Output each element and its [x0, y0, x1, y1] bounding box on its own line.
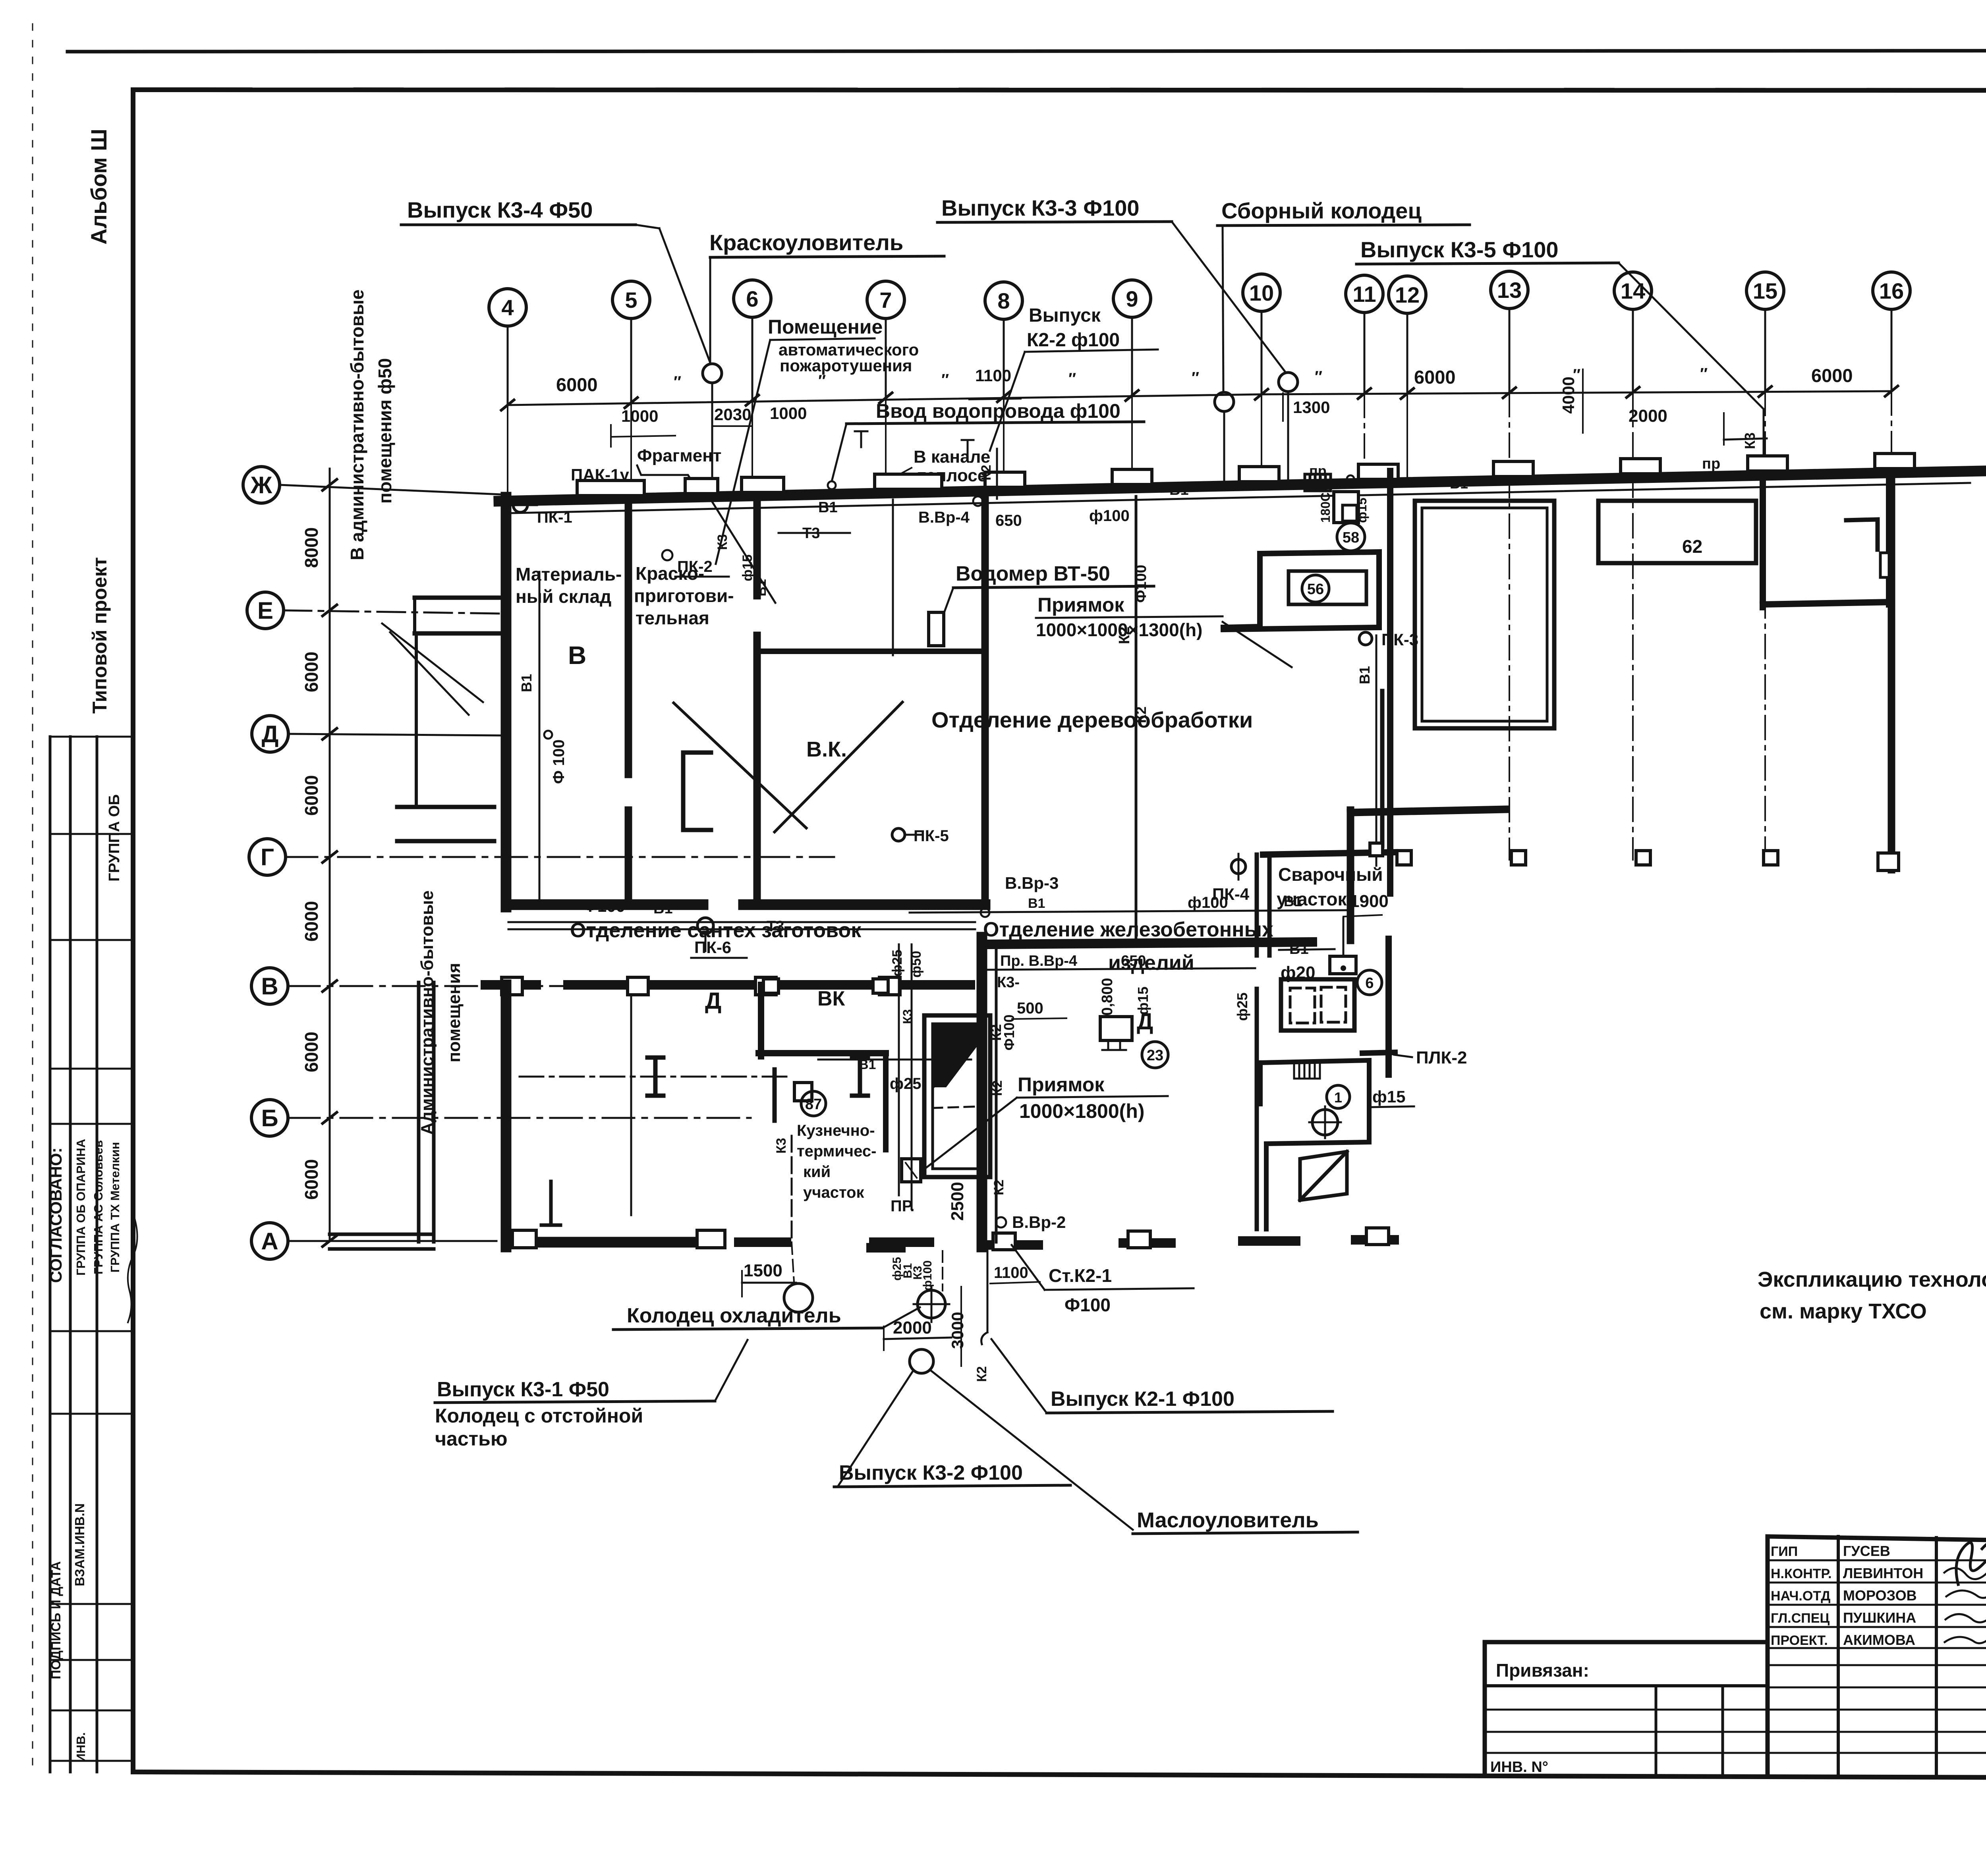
svg-text:62: 62 — [1682, 536, 1702, 557]
svg-text:К2: К2 — [1133, 706, 1149, 723]
svg-text:В1: В1 — [859, 1057, 876, 1072]
grid column 8 circle — [985, 282, 1022, 319]
svg-text:Д: Д — [705, 988, 721, 1014]
svg-text:ПК-4: ПК-4 — [1212, 885, 1250, 903]
svg-text:1000: 1000 — [770, 404, 807, 423]
svg-text:ф25: ф25 — [890, 1075, 922, 1092]
svg-text:тельная: тельная — [636, 608, 709, 628]
circle 58 — [1337, 523, 1365, 551]
axis В circle — [251, 968, 288, 1004]
svg-text:АКИМОВА: АКИМОВА — [1843, 1632, 1915, 1648]
grid column 14 circle — [1614, 272, 1652, 309]
border: frame left — [131, 90, 135, 1772]
svg-text:Сварочный: Сварочный — [1278, 864, 1383, 885]
svg-text:Выпуск К3-3 Ф100: Выпуск К3-3 Ф100 — [941, 195, 1139, 220]
svg-text:ПК-2: ПК-2 — [677, 558, 713, 575]
svg-text:ЛЕВИНТОН: ЛЕВИНТОН — [1843, 1565, 1923, 1581]
svg-text:Колодец охладитель: Колодец охладитель — [627, 1304, 841, 1327]
margin signatures — [128, 1217, 137, 1322]
svg-text:термичес-: термичес- — [797, 1143, 876, 1160]
svg-text:К3: К3 — [715, 534, 730, 550]
svg-text:Отделение сантех заготовок: Отделение сантех заготовок — [570, 919, 862, 942]
axis А leader — [288, 1240, 496, 1242]
svg-text:К3: К3 — [1742, 432, 1758, 449]
svg-text:1100: 1100 — [994, 1264, 1028, 1282]
svg-text:″: ″ — [1700, 365, 1708, 382]
svg-text:Ф100: Ф100 — [1064, 1295, 1111, 1315]
svg-text:пр: пр — [1309, 463, 1327, 479]
wall: lower-left block top — [485, 980, 536, 990]
svg-text:Административно-бытовые: Административно-бытовые — [417, 890, 437, 1135]
grid column 11 circle — [1346, 275, 1383, 313]
svg-text:Ж: Ж — [250, 472, 272, 498]
svg-text:Ст.К2-1: Ст.К2-1 — [1049, 1265, 1112, 1286]
pipe В1 сварочный — [1343, 918, 1345, 958]
wall: upper-left block bottom — [506, 899, 703, 910]
border: frame bottom — [133, 1772, 1986, 1783]
svg-text:ный склад: ный склад — [516, 586, 611, 607]
svg-text:В1: В1 — [754, 579, 769, 596]
washroom walls — [1260, 1060, 1369, 1229]
svg-text:6000: 6000 — [1811, 365, 1853, 386]
svg-text:ГРУППА ОБ ОПАРИНА: ГРУППА ОБ ОПАРИНА — [74, 1139, 88, 1276]
axis Д circle — [252, 716, 288, 752]
wall: сварочный top — [1263, 852, 1395, 855]
svg-text:9: 9 — [1126, 286, 1138, 311]
axis Г circle — [249, 839, 286, 875]
svg-text:ГРУППА ТХ Метелкин: ГРУППА ТХ Метелкин — [108, 1142, 122, 1273]
pilasters on top wall — [577, 481, 644, 496]
svg-text:1000×1800(h): 1000×1800(h) — [1019, 1100, 1145, 1122]
grid line 4 — [507, 326, 509, 405]
svg-text:″: ″ — [674, 373, 681, 391]
svg-text:СОГЛАСОВАНО:: СОГЛАСОВАНО: — [46, 1148, 65, 1283]
axis Б circle — [251, 1100, 288, 1136]
svg-text:Типовой проект: Типовой проект — [89, 557, 111, 714]
svg-text:6000: 6000 — [301, 1159, 322, 1200]
free-standing column squares — [1397, 851, 1411, 865]
svg-text:Альбом Ш: Альбом Ш — [86, 129, 111, 245]
svg-text:Выпуск: Выпуск — [1029, 305, 1101, 326]
svg-text:Выпуск К3-4 Ф50: Выпуск К3-4 Ф50 — [407, 197, 593, 222]
top dimension line — [508, 391, 1891, 405]
wall: partition Д/ВК lower — [758, 985, 764, 1056]
svg-text:Ф100: Ф100 — [1001, 1015, 1017, 1051]
wall: upper-left block left (axis 4) — [501, 497, 512, 907]
axis Г leader — [286, 856, 834, 858]
svg-text:участок: участок — [803, 1184, 864, 1201]
pilasters middle bottom — [993, 1233, 1015, 1250]
wall: деревообработки bottom — [987, 942, 1312, 944]
svg-text:ГУСЕВ: ГУСЕВ — [1843, 1543, 1890, 1559]
svg-text:14: 14 — [1621, 278, 1645, 303]
svg-text:Д: Д — [262, 721, 279, 747]
svg-text:ВЗАМ.ИНВ.N: ВЗАМ.ИНВ.N — [72, 1504, 87, 1586]
svg-text:Экспликацию технологического: Экспликацию технологического оборудовани… — [1758, 1268, 1986, 1291]
svg-text:″: ″ — [1192, 369, 1199, 387]
В.Вр-3 pipe row — [910, 910, 1347, 913]
svg-text:В1: В1 — [518, 674, 535, 692]
svg-text:кий: кий — [803, 1163, 831, 1181]
svg-text:″: ″ — [1315, 368, 1322, 386]
svg-text:участок: участок — [1277, 889, 1347, 909]
grid line 10 — [1261, 311, 1263, 394]
wall: room 56 — [1223, 552, 1379, 627]
svg-text:см. марку ТХСО: см. марку ТХСО — [1760, 1299, 1927, 1323]
grid line 6 — [752, 317, 753, 400]
heater comb symbol — [1305, 474, 1331, 491]
svg-text:Г: Г — [261, 844, 274, 870]
well circle сборный — [1215, 392, 1234, 411]
svg-text:К2-2 ф100: К2-2 ф100 — [1027, 330, 1120, 351]
svg-text:1300: 1300 — [1293, 398, 1330, 417]
svg-text:В.К.: В.К. — [806, 737, 847, 761]
stairs hatch — [1294, 1063, 1320, 1079]
svg-text:ПК-5: ПК-5 — [914, 827, 949, 845]
equipment box сварочный — [1330, 956, 1356, 974]
svg-text:частью: частью — [435, 1428, 508, 1450]
svg-text:Привязан:: Привязан: — [1496, 1660, 1589, 1681]
circle 23 — [1142, 1042, 1168, 1068]
svg-text:6000: 6000 — [301, 775, 322, 816]
svg-text:10: 10 — [1249, 280, 1274, 305]
svg-text:Колодец с отстойной: Колодец с отстойной — [435, 1405, 643, 1427]
пм box — [902, 1159, 921, 1182]
axis dash line in room Д — [520, 1076, 790, 1078]
top-right room walls — [1760, 477, 1766, 607]
svg-text:Сборный колодец: Сборный колодец — [1221, 198, 1422, 223]
wall: partition склад/краско — [625, 500, 632, 774]
svg-text:Приямок: Приямок — [1018, 1073, 1105, 1096]
valve В.Вр-2 — [996, 1217, 1006, 1228]
svg-text:К2: К2 — [979, 465, 994, 481]
svg-text:Ввод водопровода ф100: Ввод водопровода ф100 — [876, 400, 1121, 422]
valve symbol water inlet — [828, 481, 836, 489]
grid column 4 circle — [489, 289, 526, 326]
svg-text:500: 500 — [1017, 1000, 1043, 1017]
svg-text:180С: 180С — [1318, 492, 1333, 523]
svg-text:8: 8 — [997, 288, 1010, 313]
grid column 15 circle — [1746, 272, 1784, 309]
water meter symbol — [929, 612, 944, 646]
svg-text:58: 58 — [1343, 529, 1359, 546]
grid column 10 circle — [1243, 274, 1280, 311]
pipe ф25 В1 forge — [818, 1059, 971, 1061]
pipes В1/К3 middle block — [898, 944, 900, 1195]
svg-text:Выпуск К3-2 Ф100: Выпуск К3-2 Ф100 — [839, 1461, 1023, 1484]
Пр. В.Вр-4 pipe row — [985, 968, 1255, 970]
svg-text:К2: К2 — [974, 1366, 989, 1382]
grid line 14 — [1632, 309, 1634, 392]
pipe Т3 stub ВК — [892, 500, 894, 655]
svg-text:15: 15 — [1753, 278, 1777, 303]
svg-text:Материаль-: Материаль- — [516, 564, 622, 585]
svg-text:ф15: ф15 — [1135, 986, 1151, 1015]
wall: ВК east partition — [981, 490, 989, 905]
wall: ВК room inner top — [761, 648, 979, 654]
parallelogram equipment — [1300, 1152, 1347, 1200]
svg-text:В административно-бытовые: В административно-бытовые — [347, 290, 367, 560]
svg-text:2030: 2030 — [714, 405, 751, 424]
svg-text:6000: 6000 — [1414, 367, 1456, 388]
pilasters lower-left bottom — [512, 1230, 536, 1248]
svg-text:К2: К2 — [990, 1080, 1005, 1096]
door swing diagonals В.К. — [674, 703, 806, 828]
svg-text:НАЧ.ОТД: НАЧ.ОТД — [1771, 1588, 1830, 1604]
svg-text:2000: 2000 — [1629, 406, 1667, 426]
svg-text:16: 16 — [1879, 278, 1904, 303]
big equipment rect — [1415, 501, 1554, 728]
pipe К2 middle block — [995, 944, 998, 1242]
svg-text:0,800: 0,800 — [1099, 978, 1116, 1015]
svg-text:Ф100: Ф100 — [1133, 565, 1149, 603]
circle 6 — [1357, 970, 1382, 995]
svg-text:23: 23 — [1147, 1047, 1163, 1064]
svg-text:А: А — [261, 1228, 278, 1255]
svg-text:К3-: К3- — [997, 974, 1020, 991]
corner pilaster right — [1878, 853, 1899, 870]
wall: lower-left block right (shared) — [977, 937, 987, 1247]
fixture cross-circle — [1312, 1110, 1338, 1135]
forge walls near 87 — [773, 1069, 777, 1121]
watering point ПК-2 — [662, 550, 672, 560]
box 1800 — [1334, 492, 1358, 523]
svg-text:1500: 1500 — [744, 1261, 782, 1280]
svg-text:Отделение деревообработки: Отделение деревообработки — [931, 707, 1253, 732]
axis Е leader — [284, 610, 501, 614]
svg-text:Ф 100: Ф 100 — [550, 739, 568, 784]
svg-text:Ф100: Ф100 — [583, 897, 625, 915]
svg-text:ф25: ф25 — [1234, 992, 1250, 1021]
pilasters lower-left top wall — [502, 977, 522, 995]
axis Б leader — [288, 1117, 751, 1119]
svg-text:6000: 6000 — [301, 652, 322, 692]
svg-text:В: В — [568, 641, 586, 670]
personnel table frame — [1768, 1536, 1986, 1541]
pipe Пр top right — [1407, 472, 1764, 479]
svg-text:Приямок: Приямок — [1037, 594, 1124, 616]
svg-text:Выпуск К2-1 Ф100: Выпуск К2-1 Ф100 — [1051, 1388, 1234, 1411]
svg-text:ИНВ. N°: ИНВ. N° — [1490, 1759, 1548, 1776]
svg-text:1000×1000×1300(h): 1000×1000×1300(h) — [1036, 620, 1202, 640]
left vertical dimension line — [329, 469, 331, 1241]
svg-text:Е: Е — [257, 597, 273, 624]
leaders to admin wing — [382, 623, 483, 702]
svg-text:помещения: помещения — [444, 963, 464, 1063]
svg-text:″: ″ — [1068, 370, 1076, 388]
приямок pit — [924, 1015, 990, 1177]
svg-text:Маслоуловитель: Маслоуловитель — [1137, 1508, 1319, 1532]
svg-text:ПЛК-2: ПЛК-2 — [1416, 1048, 1467, 1067]
svg-text:56: 56 — [1307, 581, 1324, 598]
grid column 5 circle — [612, 281, 650, 318]
paper edge left — [32, 24, 33, 1775]
svg-text:В1: В1 — [1356, 666, 1373, 684]
svg-text:ф100: ф100 — [1089, 507, 1130, 525]
admin stub bottom — [330, 1233, 434, 1236]
admin building west wall — [417, 982, 421, 1242]
window-pane equipment — [1281, 979, 1354, 1031]
svg-text:ГРУППА АС Соловьев: ГРУППА АС Соловьев — [91, 1140, 105, 1275]
svg-text:пр: пр — [1702, 455, 1720, 472]
personnel signatures — [1944, 1568, 1986, 1643]
svg-text:Н.КОНТР.: Н.КОНТР. — [1771, 1566, 1832, 1581]
svg-text:6000: 6000 — [301, 901, 322, 942]
svg-text:1000: 1000 — [621, 407, 658, 425]
grid line 16 — [1891, 309, 1893, 391]
svg-text:ф15: ф15 — [1372, 1087, 1405, 1106]
watering point ПК-4 — [1231, 859, 1246, 874]
watering point ПК-6 — [697, 918, 713, 934]
watering point ПК-5 — [892, 828, 905, 841]
well колодец охладитель — [784, 1283, 813, 1312]
svg-text:В1: В1 — [818, 499, 838, 516]
svg-text:Выпуск К3-1 Ф50: Выпуск К3-1 Ф50 — [437, 1378, 609, 1401]
wall: middle block bottom segments — [871, 1243, 901, 1253]
I-beam column symbols — [647, 1058, 663, 1096]
pipe К2 stub top — [996, 449, 998, 499]
wall: partition краско/ВК — [753, 500, 761, 596]
svg-text:ПРОЕКТ.: ПРОЕКТ. — [1771, 1633, 1828, 1648]
svg-text:ПОДПИСЬ И ДАТА: ПОДПИСЬ И ДАТА — [48, 1561, 63, 1679]
svg-text:650: 650 — [995, 512, 1022, 529]
axis Д leader — [288, 734, 501, 735]
svg-text:Отделение железобетонных: Отделение железобетонных — [983, 918, 1273, 941]
svg-text:87: 87 — [805, 1096, 822, 1113]
grid column 7 circle — [867, 281, 904, 318]
wall: деревообработки east jog — [1347, 810, 1354, 940]
admin corridor stub lower — [397, 805, 494, 809]
svg-text:Кузнечно-: Кузнечно- — [797, 1122, 875, 1139]
axis А circle — [251, 1223, 288, 1259]
wall: кузнечный partition — [883, 1053, 889, 1150]
axis Ж circle — [243, 467, 280, 503]
grid line 13 — [1509, 309, 1511, 393]
wall: ВК lower room bottom — [759, 1050, 886, 1056]
привязан box — [1485, 1640, 1768, 1644]
svg-text:6: 6 — [746, 286, 758, 311]
svg-text:К3: К3 — [900, 1009, 915, 1024]
grid line 9 — [1131, 317, 1133, 396]
svg-text:К3: К3 — [774, 1138, 789, 1154]
watering point ПК-1 — [513, 498, 527, 512]
pipe К3 slant in краско room — [712, 501, 775, 603]
pump well (cross circle) — [918, 1290, 945, 1318]
pipe К2 деревообработка — [1135, 496, 1138, 940]
svg-text:Краскоуловитель: Краскоуловитель — [709, 230, 903, 255]
grid line 5 — [630, 318, 632, 403]
svg-text:МОРОЗОВ: МОРОЗОВ — [1843, 1587, 1917, 1604]
svg-text:2000: 2000 — [893, 1318, 932, 1338]
svg-text:ф25: ф25 — [890, 950, 905, 977]
pipe К2 outfall stub — [987, 1245, 989, 1332]
grid column 6 circle — [734, 280, 771, 317]
axis В leader — [288, 985, 751, 987]
svg-text:В1: В1 — [1028, 896, 1045, 911]
border: top strip line — [68, 50, 1986, 52]
svg-text:Фрагмент: Фрагмент — [637, 446, 721, 465]
svg-text:2500: 2500 — [948, 1182, 967, 1221]
svg-text:5: 5 — [625, 288, 637, 313]
svg-text:1: 1 — [1334, 1089, 1342, 1106]
svg-text:11: 11 — [1352, 282, 1376, 307]
axis Ж leader — [280, 485, 501, 494]
svg-text:4: 4 — [501, 295, 514, 320]
svg-text:помещения ф50: помещения ф50 — [375, 358, 395, 504]
grid column 13 circle — [1491, 271, 1528, 309]
svg-text:1900: 1900 — [1350, 892, 1389, 911]
pipe riser grid5 lower block — [630, 989, 632, 1215]
grid column 9 circle — [1113, 280, 1151, 317]
svg-text:3000: 3000 — [948, 1312, 967, 1349]
svg-text:8000: 8000 — [301, 527, 322, 568]
svg-text:ф15: ф15 — [1355, 498, 1369, 523]
wall: сварочный right — [1385, 939, 1392, 1075]
svg-text:6: 6 — [1365, 975, 1374, 992]
svg-text:ГРУППА ОБ: ГРУППА ОБ — [106, 794, 123, 882]
svg-text:пожаротушения: пожаротушения — [780, 356, 912, 375]
fixture circle 1 — [1327, 1085, 1350, 1108]
grid line 8 — [1003, 319, 1005, 397]
svg-text:ПК-1: ПК-1 — [537, 509, 572, 526]
wall: corridor right of деревообработки — [1387, 471, 1393, 691]
pipe В1 along top wall — [512, 483, 1970, 513]
well circle К3-4 — [703, 364, 722, 383]
svg-text:13: 13 — [1497, 278, 1522, 303]
svg-text:4000: 4000 — [1559, 376, 1578, 413]
wall: building right end — [1888, 471, 1895, 870]
pipe К3 forge — [791, 1136, 793, 1242]
grid line 15 — [1764, 309, 1766, 392]
watering point ПК-3 — [1359, 632, 1372, 645]
wall: lower-left block bottom — [506, 1237, 715, 1248]
svg-text:ф50: ф50 — [909, 951, 924, 978]
equipment rect 62 — [1598, 501, 1756, 563]
svg-text:Б: Б — [261, 1105, 278, 1131]
svg-text:″: ″ — [941, 371, 949, 389]
column post lower-left — [541, 1181, 560, 1225]
svg-text:7: 7 — [879, 288, 892, 313]
svg-text:ИНВ.: ИНВ. — [74, 1732, 88, 1762]
pipe Т3/В1 corridor — [508, 921, 975, 923]
svg-text:В.Вр-4: В.Вр-4 — [918, 509, 970, 526]
svg-text:В1: В1 — [653, 900, 673, 917]
grid column 12 circle — [1389, 276, 1426, 313]
closet in ВК — [683, 753, 711, 830]
wall: building top (axis Ж) — [499, 471, 1982, 501]
well circle К3-3 — [1279, 372, 1298, 392]
grid column 16 circle — [1873, 272, 1910, 309]
pipe В1 in room В — [539, 572, 541, 901]
svg-text:ПУШКИНА: ПУШКИНА — [1843, 1610, 1916, 1626]
admin wall vertical — [415, 633, 418, 806]
outfall well К3-2 — [910, 1349, 933, 1373]
equipment circle 87 — [801, 1091, 826, 1116]
svg-text:К2: К2 — [991, 1179, 1007, 1195]
svg-text:Пр. В.Вр-4: Пр. В.Вр-4 — [1000, 953, 1077, 969]
svg-text:ГИП: ГИП — [1771, 1544, 1798, 1559]
grid line 7 — [885, 318, 887, 398]
svg-text:Выпуск К3-5 Ф100: Выпуск К3-5 Ф100 — [1360, 237, 1558, 262]
svg-text:650: 650 — [1121, 953, 1146, 969]
svg-text:В.Вр-3: В.Вр-3 — [1005, 874, 1059, 892]
valve symbol теплосеть — [855, 431, 867, 447]
equipment 56 — [1289, 571, 1366, 604]
svg-text:В1: В1 — [1169, 482, 1189, 498]
axis Е circle — [247, 592, 284, 629]
svg-text:6000: 6000 — [301, 1032, 322, 1072]
border: frame top — [133, 90, 1986, 91]
